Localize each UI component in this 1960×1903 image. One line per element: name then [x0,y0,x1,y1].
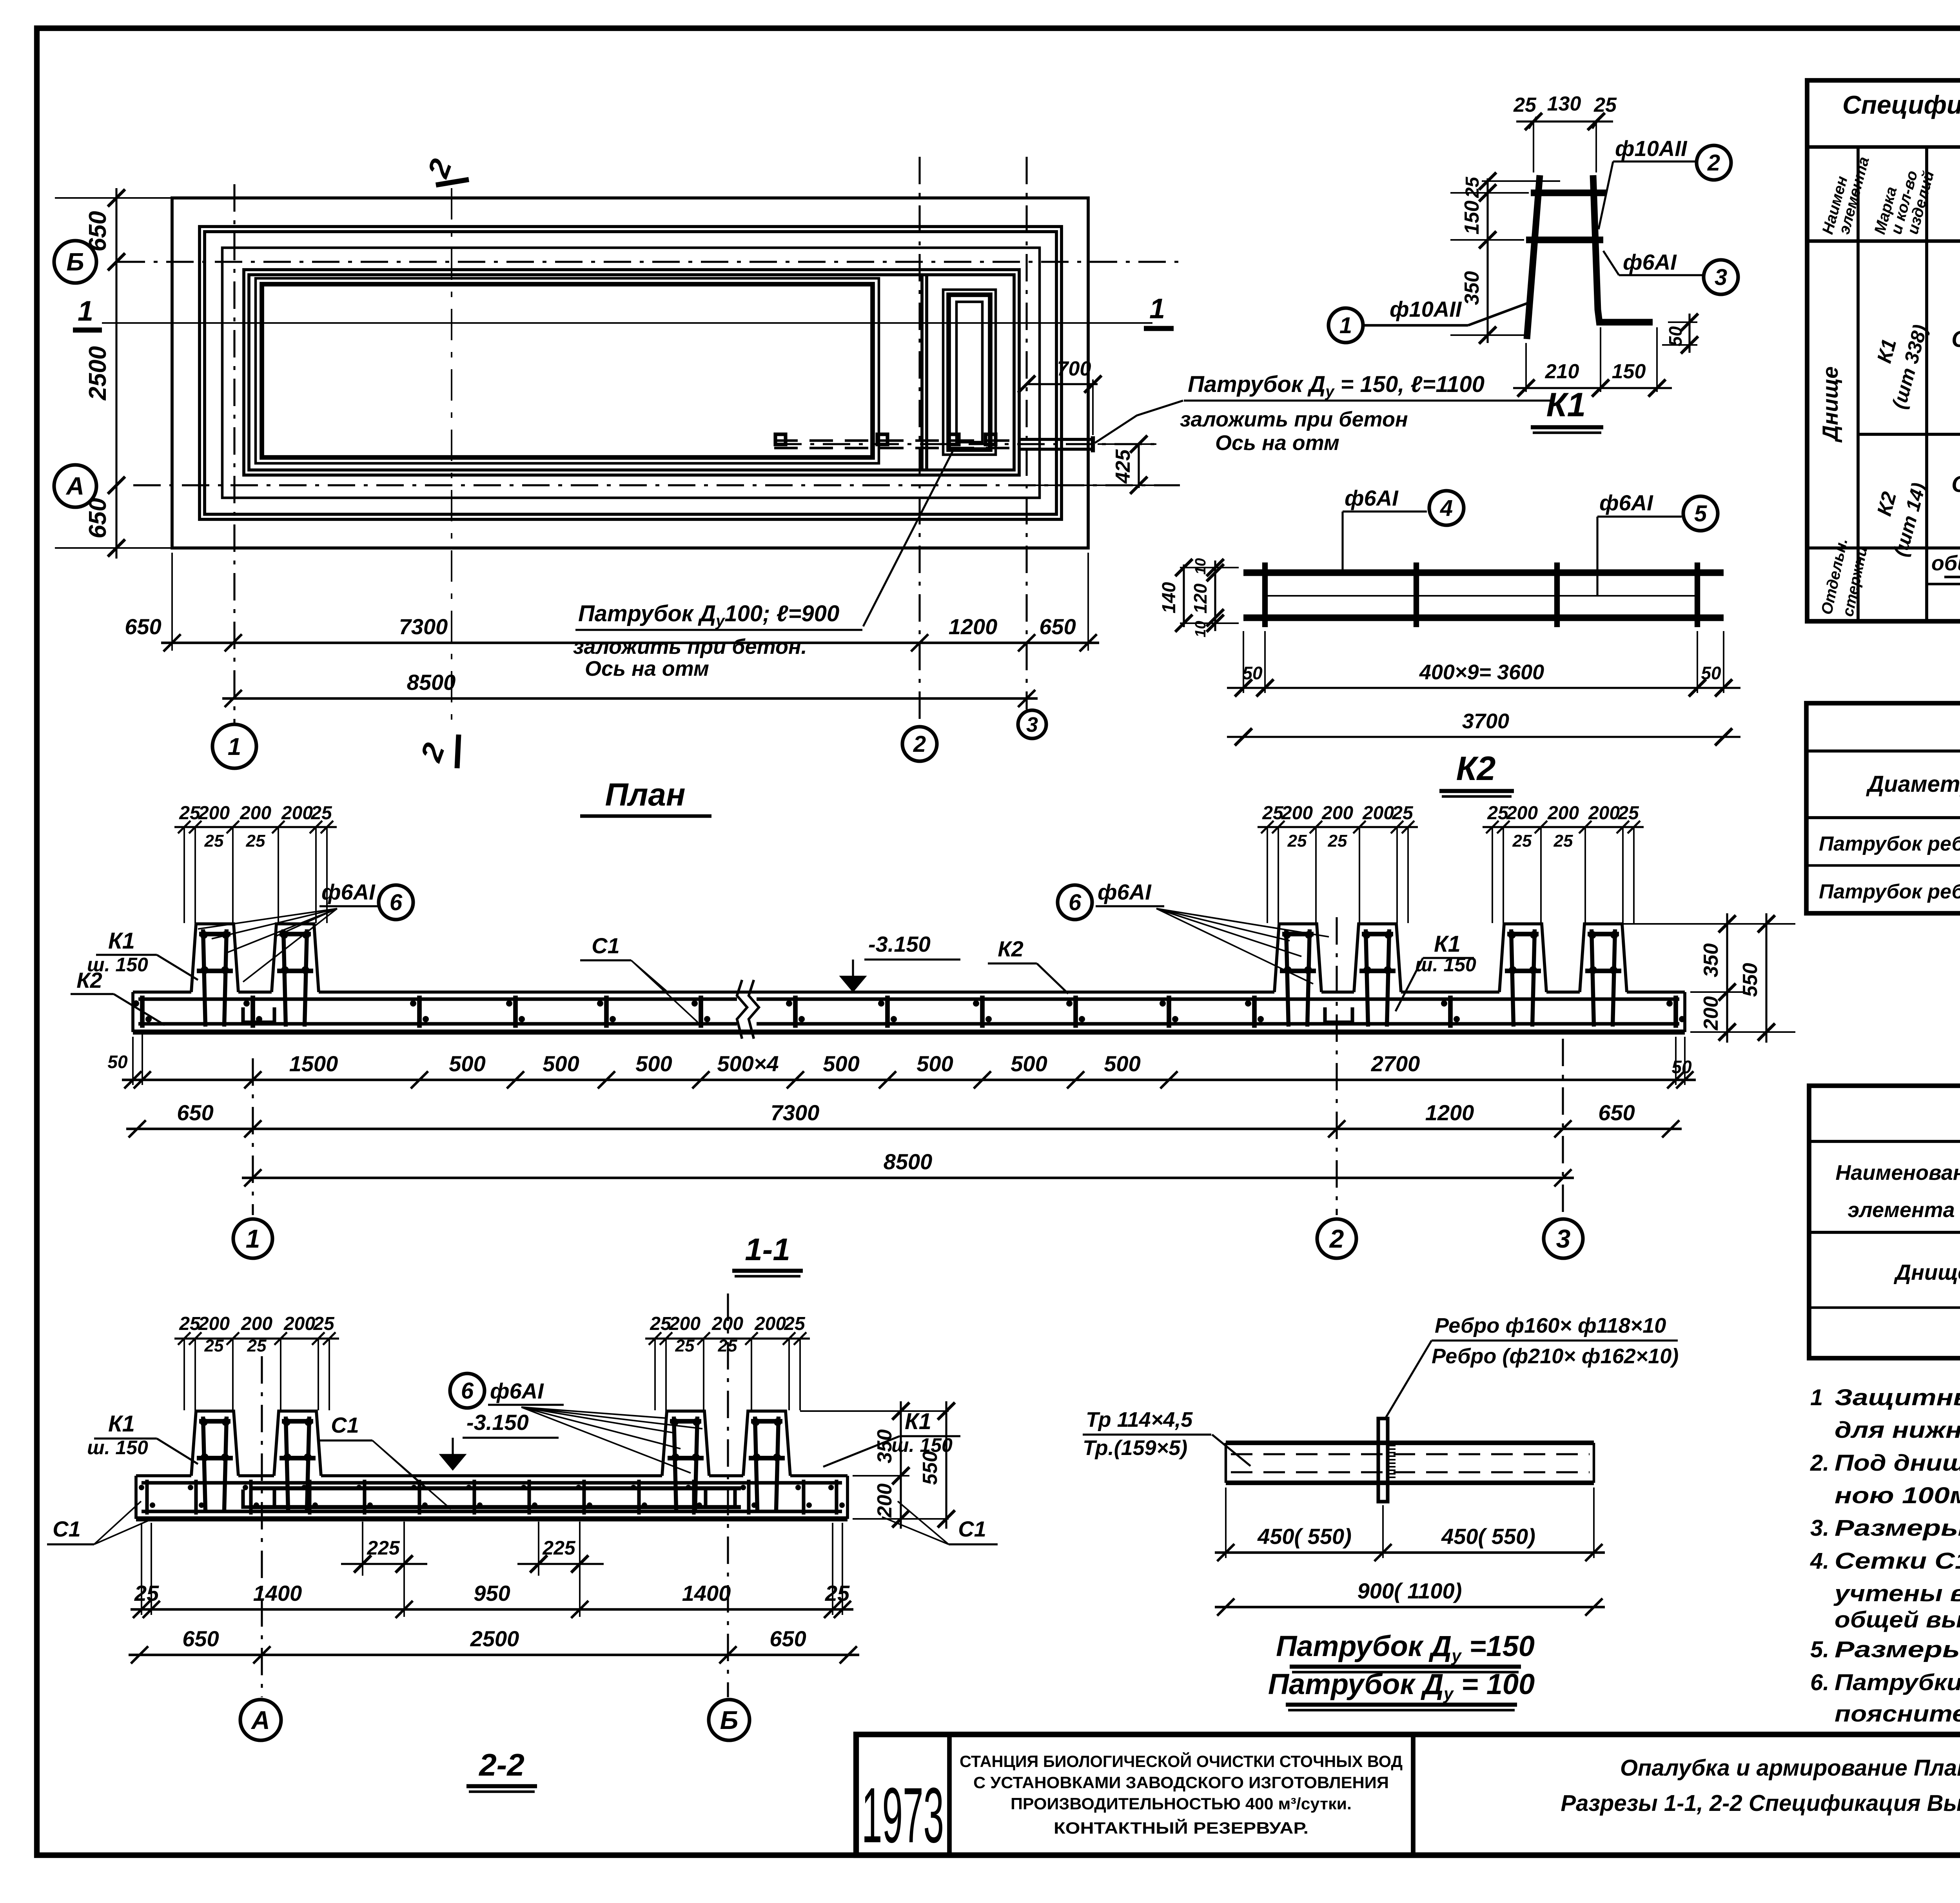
svg-text:500: 500 [1011,1051,1047,1076]
svg-text:650: 650 [1598,1100,1635,1125]
plan small compartment inner boundary [943,290,996,455]
rib cage bars [1366,929,1368,1027]
svg-text:Диаметр: Диаметр [1866,771,1960,797]
plan main compartment inner boundary [256,278,879,463]
plan axis circle 2 [902,727,937,761]
section rib K1 outline [191,1411,238,1476]
section 1-1 top rebar line K2 [138,997,737,1001]
plan pipe wall crossing squares [775,434,786,444]
plan pipe stub dashed lines [774,439,1019,442]
svg-text:200: 200 [198,803,230,824]
rib cage bars [283,929,286,1027]
svg-text:Сетки С1 - сварные по Гост: Сетки С1 - сварные по Госту 8478-66 марк… [1835,1548,1960,1574]
svg-text:ф6АI: ф6АI [1098,880,1152,904]
svg-text:Патрубок Ду =150: Патрубок Ду =150 [1276,1630,1535,1665]
svg-text:500: 500 [635,1051,672,1076]
title block [856,1734,1960,1887]
svg-text:ф10АII: ф10АII [1615,136,1688,161]
svg-text:заложить при бетон.: заложить при бетон. [573,635,807,659]
svg-text:500: 500 [449,1051,485,1076]
svg-text:1: 1 [78,296,93,327]
svg-text:Б: Б [66,248,84,276]
svg-text:350: 350 [1700,943,1722,978]
section rib K1 outline [662,1411,709,1476]
K1 callout circle 3 [1704,260,1738,294]
svg-text:25: 25 [1512,831,1532,851]
section 1-1 slab bottom [133,1030,1685,1035]
plan leader to pipe Du150 [1095,401,1183,443]
svg-text:700: 700 [1057,357,1091,380]
plan section cut 1-1 trace [102,322,1152,324]
rib cage bars [1511,929,1514,1027]
section rib K1 outline [272,924,319,992]
svg-text:Патрубок Ду = 150, ℓ=1100: Патрубок Ду = 150, ℓ=1100 [1188,372,1485,400]
svg-text:50: 50 [1701,663,1721,683]
svg-text:См. чертеж: См. чертеж [1951,327,1960,352]
svg-text:150: 150 [1461,201,1483,235]
svg-text:2500: 2500 [470,1626,519,1651]
plan section cut 2-2 trace [451,188,452,729]
svg-text:Патрубки окрасить антикорр: Патрубки окрасить антикоррозийным состав… [1835,1670,1960,1695]
svg-text:ш. 150: ш. 150 [87,1437,148,1459]
rib cage bars [203,1417,205,1510]
svg-text:25: 25 [1617,803,1639,824]
svg-text:25: 25 [1328,831,1347,851]
svg-text:1: 1 [246,1224,260,1253]
pipe rib plate [1378,1419,1388,1502]
svg-text:200: 200 [1547,803,1579,824]
pipe dim 900(1100) [1215,1606,1605,1609]
svg-text:С УСТАНОВКАМИ ЗАВОДСКОГО ИЗГ: С УСТАНОВКАМИ ЗАВОДСКОГО ИЗГОТОВЛЕНИЯ [973,1773,1389,1792]
svg-text:Наименование: Наименование [1835,1161,1960,1185]
svg-text:8500: 8500 [884,1149,933,1174]
svg-text:-3.150: -3.150 [466,1410,529,1435]
svg-text:ф6АI: ф6АI [1599,490,1653,515]
svg-text:200: 200 [1281,803,1313,824]
svg-text:-3.150: -3.150 [868,932,931,956]
svg-text:25: 25 [650,1313,671,1334]
svg-text:ною 100мм. из бетона: ною 100мм. из бетона марки - 50. [1835,1483,1960,1508]
plan bottom chain 8500 [222,697,1038,700]
svg-text:500×4: 500×4 [717,1051,779,1076]
section 2-2 slab mesh verticals [145,1480,149,1515]
plan inner wall face (double line) [244,270,1019,475]
svg-text:25: 25 [204,1336,224,1355]
svg-text:25: 25 [310,803,332,824]
plan axis circle B [54,241,96,283]
svg-text:С1: С1 [53,1517,81,1541]
section rib K1 outline [1580,924,1627,992]
svg-text:Ребро (ф210× ф162×10): Ребро (ф210× ф162×10) [1432,1344,1679,1368]
svg-text:200: 200 [1700,996,1722,1031]
rib cage bars [286,1417,288,1510]
section 1-1 axis circle 2 [1317,1219,1356,1258]
plan axis 3 dash-dot line [1025,157,1027,709]
plan axis circle 1 [212,724,256,768]
plan dimension 425 [1138,444,1140,488]
svg-text:ф6АI: ф6АI [490,1379,544,1403]
svg-text:1500: 1500 [289,1051,338,1076]
svg-text:450( 550): 450( 550) [1441,1524,1535,1549]
svg-text:130: 130 [1547,93,1581,115]
svg-text:25: 25 [825,1581,850,1605]
section rib K1 outline [1499,924,1546,992]
K2 bottom chain 50/3600/50 [1227,687,1740,689]
plan bottom chain 650/7300/1200/650 [161,642,1099,644]
K1 right bar with bottom leg (pos 2) [1593,175,1653,322]
svg-text:450( 550): 450( 550) [1257,1524,1352,1549]
svg-text:ПРОИЗВОДИТЕЛЬНОСТЬЮ 400 м³/су: ПРОИЗВОДИТЕЛЬНОСТЬЮ 400 м³/сутки. [1011,1794,1352,1813]
svg-text:А: А [250,1705,270,1734]
K2 cross bars (pos 5) [1262,562,1268,627]
svg-text:Патрубок ребристый Ду=100: Патрубок ребристый Ду=100 ℓ=900 [1819,833,1960,859]
section 1-1 group [71,803,1795,1276]
svg-text:210: 210 [1545,360,1579,383]
svg-text:К2: К2 [1456,750,1496,787]
svg-text:225: 225 [367,1537,400,1559]
svg-text:8500: 8500 [407,670,456,695]
K2 bottom bar [1243,615,1724,621]
K1 callout circle 2 [1697,145,1731,180]
section 2-2 slab outline [134,1476,138,1519]
plan pipe axis dash-dot [774,443,1156,445]
svg-text:25: 25 [246,831,265,851]
section 1-1 axis lines [252,1058,254,1215]
svg-text:К2: К2 [76,968,102,992]
svg-text:2-2: 2-2 [478,1747,524,1782]
K1 top dim chain 25/130/25 [1529,117,1537,129]
svg-text:650: 650 [177,1100,213,1125]
svg-text:А: А [65,472,84,500]
svg-text:200: 200 [873,1484,896,1518]
svg-text:Размеры в скобках даны: Размеры в скобках даны для патрубка Ду= … [1835,1637,1960,1662]
pipe dashed inner lines [1231,1453,1590,1455]
K1 stirrup top (pos 3) [1531,190,1606,196]
svg-text:План: План [605,777,685,813]
section 2-2 axis circle B [709,1700,750,1740]
svg-text:элемента: элемента [1847,1198,1955,1222]
section 2-2 dim chain 25/1400/950/1400/25 [131,1608,853,1611]
svg-text:500: 500 [823,1051,859,1076]
svg-text:1-1: 1-1 [745,1232,790,1267]
svg-text:200: 200 [669,1313,701,1334]
svg-text:Б: Б [720,1705,739,1734]
plan axis 1 dash-dot line [233,184,235,723]
svg-text:25: 25 [204,831,224,851]
section 2-2 dim 225 marks [362,1522,363,1576]
svg-text:200: 200 [283,1313,315,1334]
pipe detail group [1083,1314,1679,1710]
detail K1 reinforcing cage [1328,93,1738,433]
plan axis circle A [54,465,96,507]
K2 mid line [1265,595,1697,597]
svg-text:К1: К1 [905,1409,931,1434]
section 2-2 group [47,1293,998,1792]
svg-text:140: 140 [1159,582,1180,613]
svg-text:Ось на отм: Ось на отм [1215,431,1339,455]
svg-text:5.: 5. [1810,1637,1829,1662]
svg-text:С1: С1 [592,933,620,958]
svg-text:50: 50 [107,1052,128,1072]
svg-text:500: 500 [543,1051,579,1076]
svg-text:Днище: Днище [1894,1260,1960,1284]
detail K2 ladder mesh [1159,486,1740,796]
svg-text:общей выборке арматуры: общей выборке арматуры на листе КС-26 [1835,1607,1960,1633]
svg-text:200: 200 [281,803,313,824]
svg-text:Тр 114×4,5: Тр 114×4,5 [1086,1408,1193,1431]
svg-text:3700: 3700 [1462,709,1509,733]
svg-text:6: 6 [461,1378,474,1404]
spec table column grid [1857,147,1860,621]
section 1-1 dim chain 2 650/7300/1200/650 [126,1128,1682,1130]
svg-text:500: 500 [1104,1051,1140,1076]
section 1-1 U-bars under rib pairs [243,1007,274,1022]
section 2-2 axis circle A [240,1700,281,1740]
svg-text:25: 25 [1392,803,1414,824]
section 1-1 bottom rebar line K2 [138,1022,737,1025]
section 2-2 top dims right [645,1337,810,1339]
plan outer wall face (double line) [200,227,1062,519]
pipe dim 450(550) x2 [1225,1488,1227,1558]
svg-text:СТАНЦИЯ БИОЛОГИЧЕСКОЙ ОЧИСТК: СТАНЦИЯ БИОЛОГИЧЕСКОЙ ОЧИСТКИ СТОЧНЫХ ВО… [960,1752,1403,1771]
svg-text:350: 350 [873,1430,896,1464]
svg-text:См. чертеж: См. чертеж [1951,472,1960,497]
svg-text:200: 200 [1506,803,1538,824]
section 1-1 axis circle 3 [1544,1219,1583,1258]
svg-text:Днище: Днище [1818,366,1842,443]
section rib K1 outline [191,924,238,992]
plan divider wall lines [920,275,924,470]
svg-text:Разрезы 1-1, 2-2 Спецификаци: Разрезы 1-1, 2-2 Спецификация Выборки [1561,1791,1960,1816]
pipe selection table (Vyborka patrubkov) [1806,703,1960,913]
plan view group [54,155,1552,816]
svg-text:ф10АII: ф10АII [1390,297,1462,321]
section 1-1 slab outline [131,992,134,1032]
section 2-2 callout 6 [450,1373,485,1408]
svg-text:К1: К1 [1546,386,1586,424]
svg-text:К1: К1 [108,928,135,954]
svg-text:7300: 7300 [399,614,448,639]
materials table (Vyborka materialov) [1809,1086,1960,1358]
section 1-1 break symbol [737,980,747,1039]
specification table [1807,80,1960,621]
svg-text:1: 1 [1149,293,1165,325]
svg-text:Ось на отм: Ось на отм [585,657,709,680]
svg-text:ф6АI: ф6АI [1345,486,1399,510]
svg-text:6: 6 [390,890,403,915]
section 1-1 dim chain 3 8500 [242,1177,1574,1179]
svg-text:25: 25 [1462,176,1483,198]
svg-text:6: 6 [1069,890,1082,915]
svg-text:ф6АI: ф6АI [1623,250,1677,274]
section 1-1 top dim group right B [1483,826,1644,828]
svg-text:Спецификация: Спецификация [1842,90,1960,119]
svg-text:25: 25 [134,1581,159,1605]
svg-text:425: 425 [1112,449,1134,484]
svg-text:К1: К1 [108,1411,135,1437]
rib cage bars [755,1417,757,1510]
svg-text:25: 25 [675,1336,695,1355]
section 1-1 right side dims 350/200/550 [1623,923,1795,925]
section 1-1 slab mesh vertical bars [140,996,145,1028]
plan dimension 700 [1027,383,1098,385]
section rib K1 outline [1274,924,1321,992]
K2 top bar (pos 4) [1243,570,1724,576]
K1 bottom dim chain 210/150 [1513,387,1672,389]
svg-text:1: 1 [228,733,241,760]
svg-text:С1: С1 [958,1517,986,1541]
svg-text:50: 50 [1665,326,1686,346]
K1 callout circle 1 [1328,308,1363,343]
svg-text:25: 25 [179,1313,201,1334]
K2 bottom chain 3700 [1227,736,1740,738]
svg-text:6.: 6. [1810,1670,1829,1695]
plan left dimension chain 650/2500/650 [115,188,117,559]
svg-text:25: 25 [1593,94,1617,116]
svg-text:2: 2 [913,731,926,757]
svg-text:650: 650 [1039,614,1076,639]
K1 left bar (pos 1) [1527,175,1540,339]
svg-text:К1: К1 [1434,931,1461,957]
svg-text:10: 10 [1192,558,1209,575]
svg-text:900( 1100): 900( 1100) [1357,1578,1462,1603]
section 2-2 right dims 350/200/550 [800,1410,949,1412]
svg-text:Патрубок ребристый Ду=150: Патрубок ребристый Ду=150 ℓ=1100 [1819,880,1960,907]
section 2-2 rebar lines [142,1481,842,1484]
rib cage bars [1286,929,1289,1027]
plan pipe stub right (Du150) [1019,438,1093,441]
section 1-1 axis circle 1 [233,1219,272,1258]
rib cage bars [1592,929,1594,1027]
svg-text:Ребро ф160× ф118×10: Ребро ф160× ф118×10 [1435,1314,1666,1337]
svg-text:2: 2 [1707,150,1720,176]
svg-text:1200: 1200 [1425,1100,1474,1125]
svg-text:350: 350 [1461,271,1483,305]
svg-text:Размеры сеток даны по: Размеры сеток даны по осям крайних стерж… [1835,1515,1960,1541]
svg-text:120: 120 [1190,583,1210,613]
svg-text:25: 25 [313,1313,335,1334]
svg-text:Патрубок Ду = 100: Патрубок Ду = 100 [1268,1668,1535,1703]
svg-text:200: 200 [241,1313,272,1334]
plan axis B dash-dot line [118,261,1180,263]
section rib K1 outline [274,1411,321,1476]
svg-text:950: 950 [474,1581,510,1605]
pipe rib weld hatch [1388,1445,1396,1446]
svg-text:500: 500 [916,1051,953,1076]
svg-text:400×9= 3600: 400×9= 3600 [1419,660,1544,684]
svg-text:150: 150 [1612,360,1646,383]
svg-text:заложить при бетон: заложить при бетон [1180,408,1408,431]
svg-text:25: 25 [179,803,201,824]
svg-text:пояснительную записку ): пояснительную записку ) [1835,1701,1960,1727]
svg-text:25: 25 [784,1313,806,1334]
svg-text:650: 650 [769,1626,806,1651]
svg-text:4: 4 [1440,495,1453,521]
svg-text:25: 25 [1262,803,1284,824]
K1 right dim 50 [1668,321,1697,323]
section 1-1 top dim group left [174,826,337,828]
svg-text:200: 200 [198,1313,230,1334]
section 1-1 top dim group right A [1258,826,1418,828]
plan axis A dash-dot line [133,484,1180,486]
svg-text:1: 1 [1810,1385,1823,1410]
svg-text:общая длина: общая длина [1931,551,1960,575]
rib cage bars [674,1417,676,1510]
svg-text:650: 650 [182,1626,219,1651]
notes (Primechaniya) [1810,1337,1960,1727]
svg-text:Патрубок Ду100; ℓ=900: Патрубок Ду100; ℓ=900 [578,601,839,629]
K2 left dims 10/120/10 and 140 [1214,561,1216,631]
svg-text:550: 550 [919,1451,942,1485]
svg-text:200: 200 [754,1313,786,1334]
section rib K1 outline [743,1411,790,1476]
svg-text:1200: 1200 [949,614,998,639]
svg-text:3.: 3. [1810,1515,1829,1541]
svg-text:Опалубка и армирование: Опалубка и армирование План [1620,1755,1960,1781]
svg-text:К2: К2 [998,936,1024,961]
svg-text:1400: 1400 [682,1581,731,1605]
svg-text:25: 25 [1553,831,1573,851]
plan wall mid line [222,248,1040,498]
svg-text:200: 200 [1321,803,1353,824]
svg-text:650: 650 [125,614,161,639]
svg-text:25: 25 [1513,94,1537,116]
svg-text:3: 3 [1026,713,1038,737]
K1 stirrup mid [1526,237,1603,243]
svg-text:ф6АI: ф6АI [321,880,376,904]
svg-text:5: 5 [1694,501,1707,526]
svg-text:КОНТАКТНЫЙ РЕЗЕРВУАР.: КОНТАКТНЫЙ РЕЗЕРВУАР. [1054,1818,1308,1837]
svg-text:для нижней арматуры - 35мм.: для нижней арматуры - 35мм. [1835,1417,1960,1443]
plan axis 2 dash-dot line [918,157,920,726]
section 2-2 axis lines [261,1356,263,1697]
section 1-1 callout 6 right [1058,885,1092,920]
section 2-2 top dims left [174,1337,339,1339]
svg-text:С1: С1 [331,1413,359,1437]
svg-text:50: 50 [1242,663,1263,683]
plan axis circle 3 [1018,710,1046,738]
plan leader to pipe Du100 [863,452,953,626]
svg-text:25: 25 [247,1336,267,1355]
svg-text:Тр.(159×5): Тр.(159×5) [1083,1436,1187,1460]
svg-text:550: 550 [1739,963,1762,997]
plan small compartment slot [956,302,982,442]
K1 left dim chain 25/150/350 [1486,178,1488,343]
svg-text:2500: 2500 [84,346,111,401]
section 2-2 U-bar [243,1489,274,1507]
svg-text:3: 3 [1556,1224,1571,1253]
svg-text:учтены в выборке материало: учтены в выборке материалов на данном ли… [1833,1581,1960,1606]
svg-text:4.: 4. [1810,1548,1829,1574]
svg-text:25: 25 [1287,831,1307,851]
svg-text:200: 200 [1362,803,1394,824]
svg-text:200: 200 [240,803,271,824]
svg-text:3: 3 [1715,265,1727,290]
svg-text:1973: 1973 [862,1772,944,1859]
svg-text:1400: 1400 [253,1581,302,1605]
section 1-1 dim chain 1 [122,1079,1696,1081]
svg-text:7300: 7300 [771,1100,820,1125]
svg-text:200: 200 [1588,803,1620,824]
section 2-2 dim chain 650/2500/650 [129,1654,859,1656]
pipe body [1226,1440,1594,1445]
svg-text:2.: 2. [1810,1450,1829,1476]
rib cage bars [203,929,205,1027]
plan slab outer edge [172,198,1088,548]
svg-text:25: 25 [1487,803,1509,824]
svg-text:225: 225 [542,1537,576,1559]
svg-text:2: 2 [1329,1224,1344,1253]
